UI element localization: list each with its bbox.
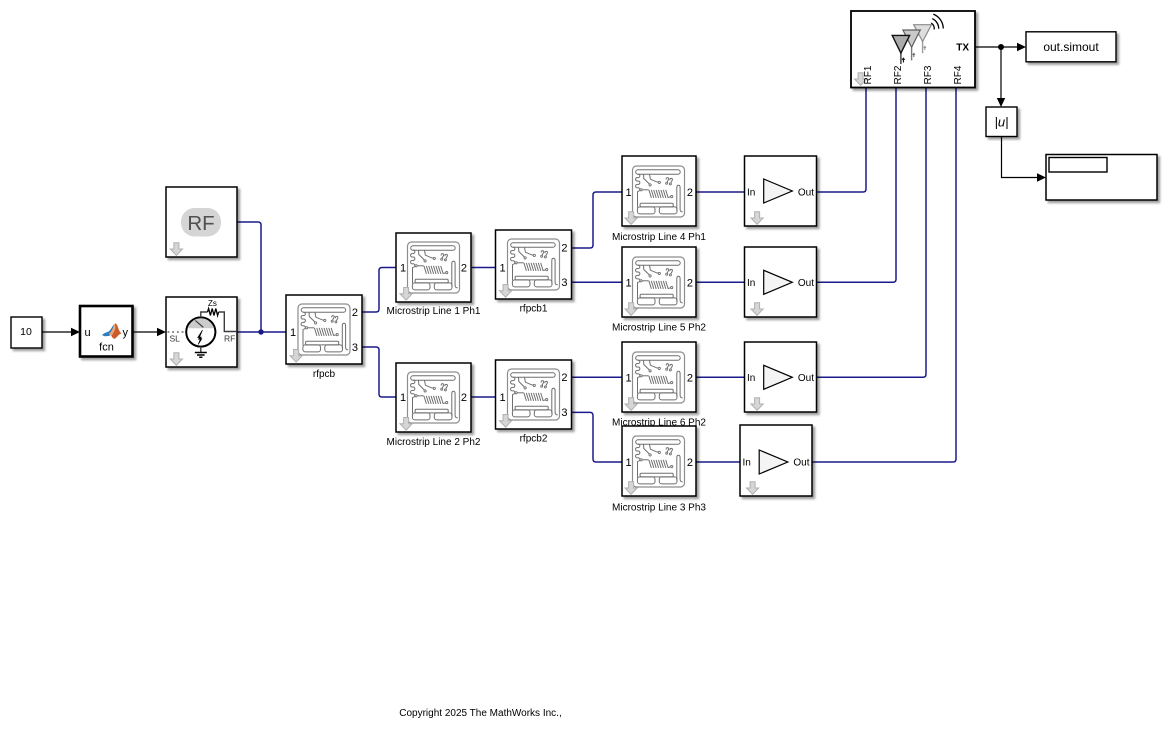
svg-text:Microstrip Line 4 Ph1: Microstrip Line 4 Ph1	[612, 232, 706, 243]
svg-text:|u|: |u|	[995, 115, 1009, 130]
svg-text:In: In	[743, 458, 751, 469]
svg-text:1: 1	[626, 277, 632, 289]
svg-text:out.simout: out.simout	[1043, 40, 1099, 54]
svg-text:1: 1	[500, 392, 506, 404]
svg-text:TX: TX	[956, 43, 969, 54]
svg-text:1: 1	[626, 457, 632, 469]
svg-text:Microstrip Line 1 Ph1: Microstrip Line 1 Ph1	[387, 306, 481, 317]
svg-text:Copyright 2025 The MathWorks I: Copyright 2025 The MathWorks Inc.,	[399, 708, 562, 719]
svg-text:RF3: RF3	[923, 65, 934, 84]
svg-text:2: 2	[352, 307, 358, 319]
svg-text:RF: RF	[224, 334, 235, 344]
svg-text:3: 3	[561, 277, 567, 289]
svg-text:2: 2	[687, 187, 693, 199]
svg-text:2: 2	[687, 277, 693, 289]
svg-text:3: 3	[561, 407, 567, 419]
svg-text:fcn: fcn	[99, 342, 114, 354]
svg-text:2: 2	[561, 372, 567, 384]
svg-text:RF: RF	[187, 212, 214, 235]
svg-text:2: 2	[561, 243, 567, 255]
svg-text:SL: SL	[170, 334, 181, 344]
svg-text:1: 1	[290, 327, 296, 339]
svg-text:rfpcb: rfpcb	[313, 369, 336, 380]
svg-text:Out: Out	[798, 373, 814, 384]
svg-text:Zs: Zs	[208, 299, 217, 308]
svg-text:RF2: RF2	[893, 65, 904, 84]
svg-text:In: In	[747, 373, 755, 384]
svg-text:2: 2	[687, 457, 693, 469]
svg-text:Out: Out	[798, 278, 814, 289]
svg-text:u: u	[85, 327, 91, 339]
svg-text:3: 3	[352, 342, 358, 354]
svg-text:Out: Out	[793, 458, 809, 469]
svg-text:1: 1	[500, 263, 506, 275]
svg-text:rfpcb2: rfpcb2	[520, 434, 548, 445]
svg-text:Microstrip Line 3 Ph3: Microstrip Line 3 Ph3	[612, 503, 706, 514]
svg-text:RF1: RF1	[863, 65, 874, 84]
svg-text:In: In	[747, 188, 755, 199]
svg-text:1: 1	[400, 263, 406, 275]
svg-text:2: 2	[461, 263, 467, 275]
svg-text:10: 10	[20, 326, 32, 338]
svg-text:rfpcb1: rfpcb1	[520, 304, 548, 315]
svg-text:2: 2	[687, 372, 693, 384]
svg-text:1: 1	[626, 187, 632, 199]
svg-text:2: 2	[461, 392, 467, 404]
svg-text:Microstrip Line 2 Ph2: Microstrip Line 2 Ph2	[387, 437, 481, 448]
svg-text:1: 1	[400, 392, 406, 404]
svg-text:Microstrip Line 5 Ph2: Microstrip Line 5 Ph2	[612, 323, 706, 334]
svg-text:Out: Out	[798, 188, 814, 199]
svg-text:1: 1	[626, 372, 632, 384]
svg-text:In: In	[747, 278, 755, 289]
svg-text:y: y	[123, 327, 129, 339]
svg-text:RF4: RF4	[953, 65, 964, 84]
